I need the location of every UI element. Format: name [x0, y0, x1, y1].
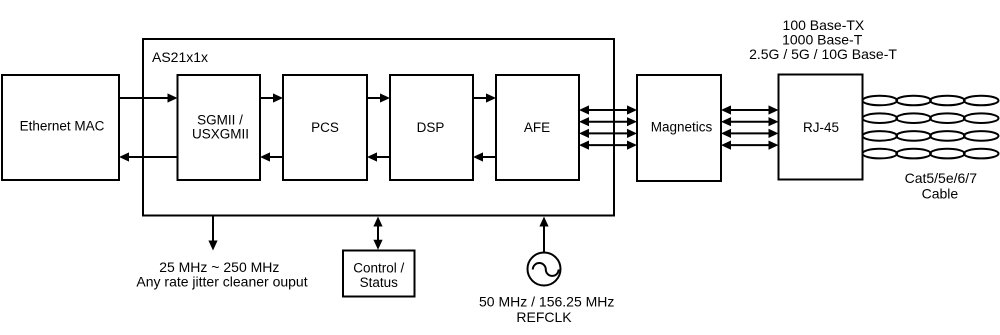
wire AFE-Magnetics pair 2 (bidirectional): [579, 117, 637, 126]
wire jitter cleaner output (down arrow): [208, 216, 217, 251]
wire REFCLK input (up arrow): [539, 217, 548, 253]
block AS21x1x (outer PHY box): [143, 39, 614, 216]
twisted pair cable row 3: [863, 131, 999, 141]
wire Ethernet MAC to SGMII (tx): [119, 93, 178, 102]
block Ethernet MAC: [2, 75, 119, 180]
twisted pair cable row 4: [863, 149, 999, 159]
svg-text:USXGMII: USXGMII: [192, 127, 249, 142]
svg-text:SGMII /: SGMII /: [197, 113, 243, 128]
wire Magnetics-RJ45 pair 2 (bidirectional): [721, 117, 779, 126]
oscillator symbol (REFCLK source): [528, 253, 561, 286]
block Control / Status: [343, 251, 415, 297]
wire DSP to PCS: [367, 152, 390, 161]
svg-text:AS21x1x: AS21x1x: [152, 49, 208, 65]
wire AFE-Magnetics pair 4 (bidirectional): [579, 141, 637, 150]
block Magnetics: [637, 75, 721, 181]
wire Magnetics-RJ45 pair 3 (bidirectional): [721, 129, 779, 138]
block AFE: [496, 75, 579, 180]
svg-text:Ethernet MAC: Ethernet MAC: [20, 119, 105, 134]
wire SGMII to Ethernet MAC (rx): [119, 152, 178, 161]
wire Magnetics-RJ45 pair 1 (bidirectional): [721, 105, 779, 114]
block PCS: [283, 75, 367, 180]
svg-text:50 MHz / 156.25 MHz: 50 MHz / 156.25 MHz: [479, 294, 614, 310]
svg-text:Status: Status: [360, 275, 399, 290]
wire AFE-Magnetics pair 1 (bidirectional): [579, 105, 637, 114]
wire Control/Status (bidirectional vertical): [373, 217, 382, 250]
wire AFE-Magnetics pair 3 (bidirectional): [579, 129, 637, 138]
twisted pair cable row 2: [863, 113, 999, 123]
svg-text:Any rate jitter cleaner ouput: Any rate jitter cleaner ouput: [136, 274, 307, 290]
wire PCS to SGMII: [260, 152, 283, 161]
wire Magnetics-RJ45 pair 4 (bidirectional): [721, 141, 779, 150]
svg-text:PCS: PCS: [311, 120, 339, 135]
block SGMII / USXGMII: [178, 75, 261, 180]
svg-text:Cable: Cable: [922, 186, 959, 202]
wire DSP to AFE: [473, 93, 496, 102]
svg-text:2.5G / 5G / 10G Base-T: 2.5G / 5G / 10G Base-T: [749, 46, 897, 62]
svg-text:REFCLK: REFCLK: [516, 309, 572, 325]
svg-text:Cat5/5e/6/7: Cat5/5e/6/7: [905, 170, 978, 186]
svg-text:DSP: DSP: [417, 120, 445, 135]
block DSP: [390, 75, 473, 180]
wire SGMII to PCS: [260, 93, 283, 102]
svg-text:Control /: Control /: [353, 261, 404, 276]
svg-text:AFE: AFE: [524, 120, 550, 135]
wire PCS to DSP: [367, 93, 390, 102]
svg-text:Magnetics: Magnetics: [651, 120, 713, 135]
wire AFE to DSP: [473, 152, 496, 161]
block RJ-45: [779, 75, 863, 180]
svg-text:RJ-45: RJ-45: [803, 120, 839, 135]
twisted pair cable row 1: [863, 96, 999, 106]
